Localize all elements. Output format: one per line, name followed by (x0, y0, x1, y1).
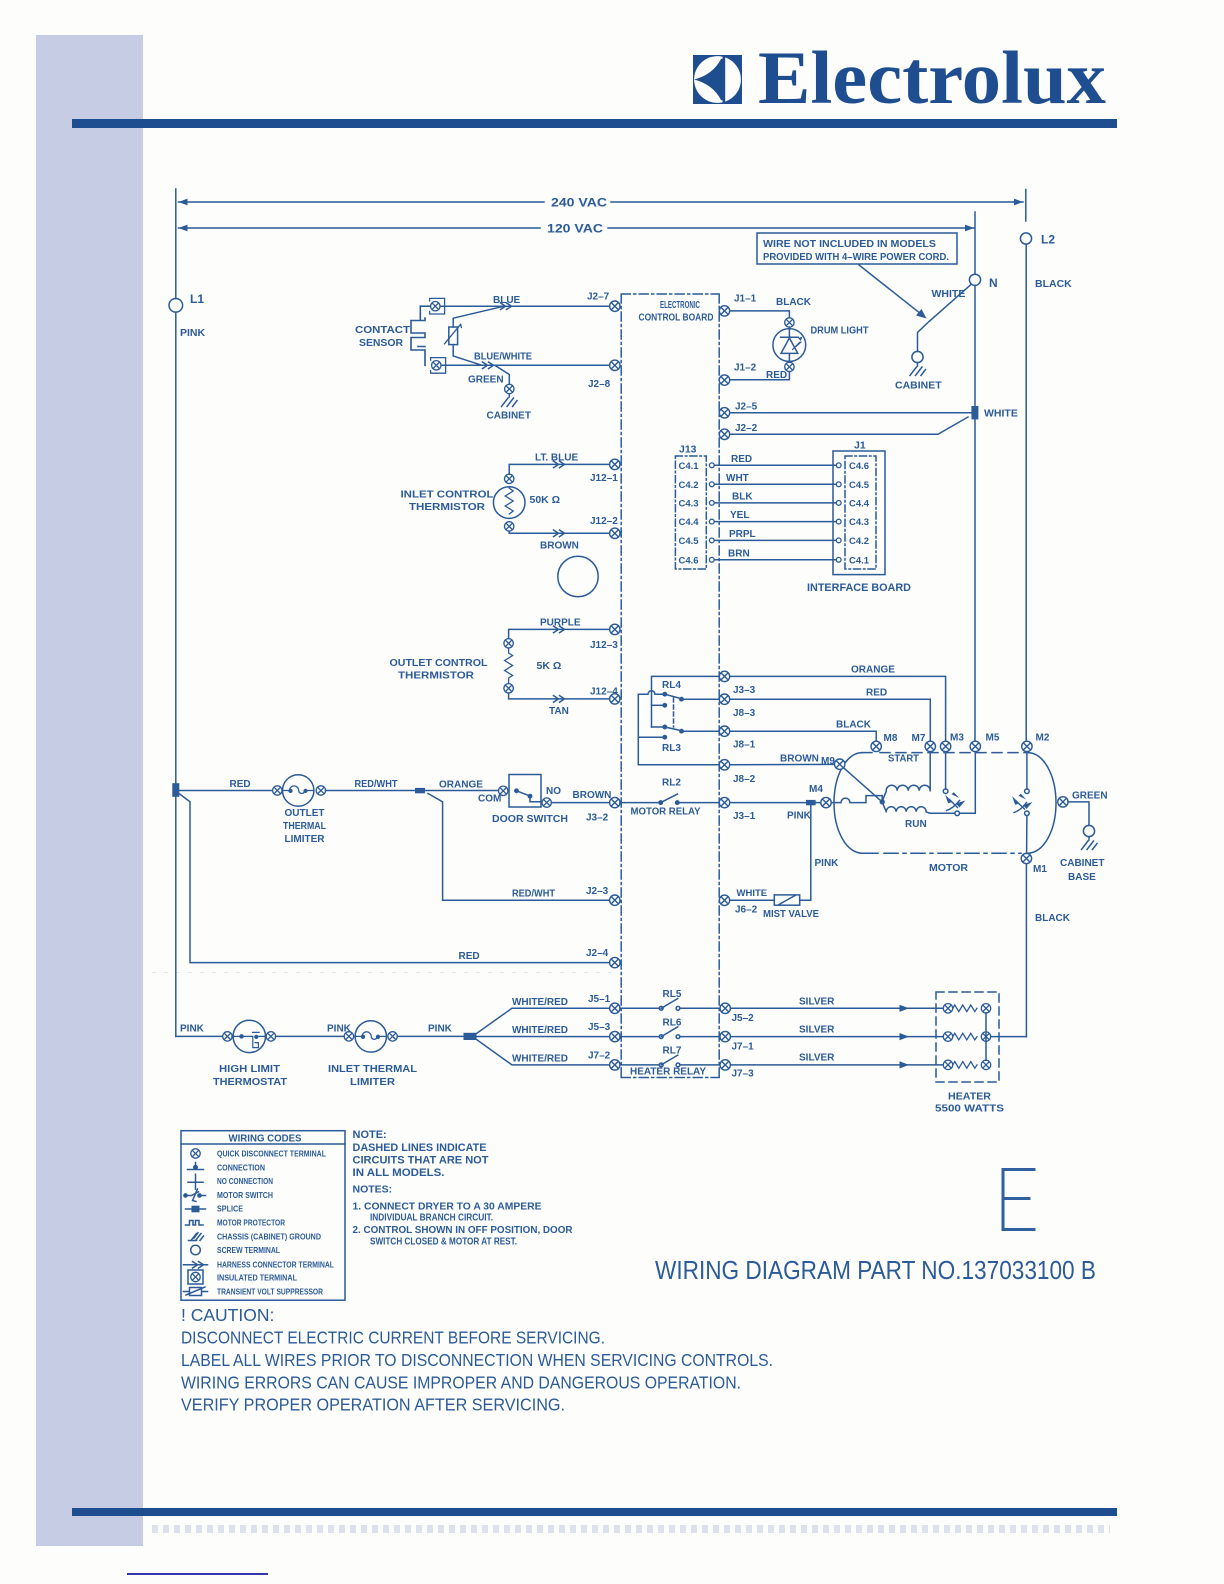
electronic control board U1 (dashed outline) (621, 294, 719, 1078)
connector J1 (833, 440, 885, 575)
relay RL4 (652, 680, 684, 707)
svg-text:C4.3: C4.3 (679, 499, 699, 510)
label INLET CONTROL THERMISTOR (401, 490, 494, 514)
wire WHITE/RED to J7-2 (477, 1040, 610, 1065)
sheet letter E (1003, 1170, 1034, 1230)
svg-text:240 VAC: 240 VAC (551, 198, 607, 210)
svg-text:C4.1: C4.1 (849, 556, 870, 567)
svg-text:CONTROL BOARD: CONTROL BOARD (639, 313, 714, 324)
svg-text:YEL: YEL (730, 510, 749, 521)
wire to J8-2 (638, 764, 719, 766)
svg-text:M8: M8 (884, 733, 898, 744)
svg-text:BRN: BRN (728, 549, 750, 560)
legend motor protector (186, 1218, 286, 1228)
terminal J2-5 (719, 402, 757, 418)
svg-text:C4.5: C4.5 (849, 480, 870, 491)
terminal J5-3 (588, 1022, 620, 1042)
svg-text:THERMISTOR: THERMISTOR (409, 502, 486, 513)
wire heater common (986, 1013, 1026, 1060)
wire N rail tick (974, 212, 976, 274)
terminal J8-2 (719, 760, 755, 785)
terminal J8-1 (719, 726, 755, 751)
node L2 top tick (1025, 190, 1027, 222)
wire WHT J13-J1 (714, 473, 836, 484)
relay RL2 motor relay (620, 778, 719, 818)
svg-text:BLACK: BLACK (776, 297, 812, 308)
wire RED/WHT to J2-3 (428, 794, 609, 901)
svg-text:HIGH LIMIT: HIGH LIMIT (219, 1064, 280, 1075)
wire RL4 common feed (hop over) (638, 691, 663, 765)
svg-text:C4.4: C4.4 (849, 499, 870, 510)
wire BLK J13-J1 (714, 492, 836, 503)
svg-text:J5–1: J5–1 (588, 994, 611, 1005)
svg-text:ORANGE: ORANGE (851, 665, 895, 676)
wire RED to J2-4 (179, 794, 609, 963)
terminal M2 (1022, 733, 1050, 752)
motor M1 outline (834, 753, 1056, 874)
terminal J5-2 (720, 1003, 754, 1024)
centrifugal switch (main M2-M1) (1012, 752, 1032, 816)
svg-text:J2–3: J2–3 (586, 886, 609, 897)
wire PRPL J13-J1 (714, 529, 836, 540)
svg-text:LABEL ALL WIRES PRIOR TO: LABEL ALL WIRES PRIOR TO DISCONNECTION W… (181, 1350, 773, 1370)
wire BRN J13-J1 (714, 549, 836, 560)
svg-text:RED: RED (731, 454, 752, 465)
svg-text:J2–7: J2–7 (587, 292, 610, 303)
notes numbered (353, 1184, 573, 1248)
terminal M4 (809, 784, 831, 808)
wire RED to outlet thermal limiter (179, 779, 272, 791)
label INLET THERMAL LIMITER (328, 1064, 417, 1088)
wire J3-3 feed (652, 676, 720, 727)
svg-text:START: START (888, 754, 919, 765)
svg-text:DRUM LIGHT: DRUM LIGHT (811, 326, 869, 337)
svg-text:BASE: BASE (1068, 872, 1096, 883)
wire LT. BLUE to J12-1 (509, 453, 609, 475)
connector J13 pin circles (709, 463, 714, 562)
svg-text:PROVIDED WITH 4–WIRE POWER: PROVIDED WITH 4–WIRE POWER CORD. (763, 252, 949, 263)
svg-text:LIMITER: LIMITER (285, 834, 326, 845)
svg-text:SILVER: SILVER (799, 1053, 835, 1064)
legend quick disconnect terminal (191, 1149, 326, 1159)
svg-text:BROWN: BROWN (540, 541, 579, 552)
svg-text:GREEN: GREEN (468, 375, 504, 386)
svg-text:J7–1: J7–1 (732, 1042, 755, 1053)
bottom rule bar (72, 1508, 1117, 1517)
wire 120 VAC (179, 224, 975, 236)
svg-text:PINK: PINK (428, 1024, 453, 1035)
terminal M8 (871, 733, 898, 752)
wire M9 to junction (844, 768, 883, 802)
inductor run winding (882, 802, 954, 813)
svg-text:NO CONNECTION: NO CONNECTION (217, 1176, 273, 1186)
wire run switch to M5 (960, 752, 976, 813)
splice PINK (806, 800, 816, 805)
svg-text:SCREW TERMINAL: SCREW TERMINAL (217, 1245, 280, 1255)
wire RL4 to J8-3 (683, 698, 719, 700)
svg-text:PINK: PINK (815, 858, 840, 869)
wire N to cabinet ground (switch blade) (918, 284, 972, 351)
svg-text:50K Ω: 50K Ω (530, 494, 561, 506)
wire WHITE to mist valve (730, 888, 774, 900)
relay RL6 (620, 1017, 719, 1038)
svg-text:BLACK: BLACK (1035, 278, 1072, 290)
svg-text:M1: M1 (1033, 864, 1047, 875)
svg-text:N: N (989, 276, 998, 290)
terminal J3-2 (586, 797, 620, 823)
legend splice (186, 1204, 244, 1214)
svg-text:J2–2: J2–2 (735, 423, 758, 434)
terminal J12-4 (590, 687, 620, 705)
svg-text:M2: M2 (1036, 733, 1050, 744)
svg-text:IN ALL MODELS.: IN ALL MODELS. (353, 1167, 445, 1179)
svg-text:SWITCH CLOSED & MOTOR AT: SWITCH CLOSED & MOTOR AT REST. (370, 1236, 517, 1248)
svg-text:THERMISTOR: THERMISTOR (398, 671, 475, 682)
wire BLUE/WHITE to J2-8 (442, 352, 610, 369)
wire M1 rail to heater (1026, 864, 1070, 1037)
ground chassis CABINET BASE (1060, 837, 1104, 883)
svg-text:BLK: BLK (732, 492, 753, 503)
relay RL3 (638, 725, 683, 754)
svg-text:HARNESS CONNECTOR TERMINAL: HARNESS CONNECTOR TERMINAL (217, 1260, 334, 1270)
mist valve V1 (763, 895, 819, 920)
left lavender band (36, 35, 143, 1546)
svg-text:C4.5: C4.5 (679, 536, 700, 547)
svg-text:J2–5: J2–5 (735, 402, 758, 413)
inlet thermal limiter F1 (344, 1021, 397, 1052)
legend chassis ground (189, 1232, 322, 1242)
terminal J12-1 (590, 459, 620, 484)
svg-text:NO: NO (546, 786, 561, 797)
svg-text:RL7: RL7 (663, 1046, 682, 1057)
wire WHITE/RED to J5-3 (477, 1025, 610, 1037)
svg-text:PINK: PINK (787, 811, 812, 822)
wire RED/WHT (326, 779, 419, 791)
transient volt suppressor RV1 (445, 306, 505, 365)
svg-text:THERMAL: THERMAL (283, 821, 326, 832)
svg-text:CIRCUITS THAT ARE NOT: CIRCUITS THAT ARE NOT (353, 1155, 489, 1167)
svg-text:J2–8: J2–8 (588, 379, 611, 390)
svg-text:L1: L1 (190, 292, 204, 306)
wire PINK mist valve to splice (800, 805, 839, 900)
legend connection (188, 1163, 266, 1173)
legend insulated terminal (188, 1270, 297, 1284)
svg-text:RL4: RL4 (662, 680, 681, 691)
svg-text:RED: RED (866, 688, 887, 699)
motor protector (M4 branch) (832, 796, 883, 803)
wire PURPLE to J12-3 (509, 618, 610, 639)
relay RL7 (620, 1046, 719, 1067)
svg-text:M3: M3 (950, 733, 964, 744)
wire J2-2 WHITE (730, 417, 968, 434)
svg-text:C4.6: C4.6 (849, 461, 869, 472)
wire GREEN to cabinet ground (468, 366, 509, 386)
hyperlink underline bottom left (127, 1573, 268, 1575)
svg-text:LIMITER: LIMITER (350, 1077, 396, 1088)
connector J1 pin labels (849, 461, 870, 567)
svg-text:L2: L2 (1041, 233, 1055, 247)
heater element 3 (943, 1060, 990, 1069)
svg-text:C4.1: C4.1 (679, 461, 700, 472)
label OUTLET CONTROL THERMISTOR (390, 658, 488, 682)
svg-text:C4.2: C4.2 (679, 480, 699, 491)
terminal M9 (821, 756, 845, 769)
linkage RL4-RL3 (673, 698, 675, 727)
terminal J2-3 (586, 886, 620, 905)
svg-text:BROWN: BROWN (573, 790, 612, 801)
terminal J12-2 (590, 516, 620, 539)
insulated terminal (contact sensor bottom) (431, 358, 446, 374)
svg-text:WHITE: WHITE (984, 408, 1018, 420)
svg-text:DISCONNECT ELECTRIC CURRENT: DISCONNECT ELECTRIC CURRENT BEFORE SERVI… (181, 1328, 605, 1348)
svg-text:J3–2: J3–2 (586, 813, 609, 824)
ground chassis CABINET (895, 363, 942, 392)
svg-text:J5–2: J5–2 (732, 1013, 755, 1024)
svg-text:J7–3: J7–3 (732, 1069, 755, 1080)
inlet control thermistor RT1 (493, 474, 560, 531)
svg-text:PINK: PINK (180, 327, 206, 339)
terminal J7-1 (720, 1031, 754, 1052)
svg-text:J13: J13 (679, 444, 697, 456)
note dashed lines (353, 1129, 489, 1179)
connector J1 pin circles (836, 463, 841, 562)
svg-text:THERMOSTAT: THERMOSTAT (213, 1077, 287, 1088)
svg-text:MOTOR RELAY: MOTOR RELAY (631, 807, 701, 818)
terminal J3-1 (719, 797, 755, 822)
svg-text:SENSOR: SENSOR (359, 338, 404, 349)
wire J2-5 WHITE (730, 412, 971, 414)
svg-text:MOTOR SWITCH: MOTOR SWITCH (217, 1190, 273, 1200)
wire M2 switch to M1 (1026, 816, 1028, 854)
wire RL3 to J8-1 (683, 730, 719, 732)
svg-text:WHT: WHT (726, 473, 749, 484)
svg-text:MOTOR PROTECTOR: MOTOR PROTECTOR (217, 1218, 285, 1228)
terminal J12-3 (590, 624, 620, 651)
circle (unlabeled) (558, 556, 598, 596)
svg-text:J8–3: J8–3 (733, 708, 756, 719)
svg-text:5500 WATTS: 5500 WATTS (935, 1103, 1004, 1115)
svg-text:COM: COM (478, 794, 501, 805)
svg-text:RED: RED (459, 951, 480, 962)
svg-text:TAN: TAN (549, 706, 569, 717)
label HIGH LIMIT THERMOSTAT (213, 1064, 287, 1088)
svg-text:BROWN: BROWN (780, 754, 819, 765)
insulated terminal (green ground) (505, 384, 514, 393)
heater HTR1 box (936, 992, 999, 1082)
svg-text:C4.6: C4.6 (679, 556, 699, 567)
connector J13 (675, 444, 706, 570)
svg-text:CABINET: CABINET (487, 411, 531, 422)
svg-text:J12–3: J12–3 (590, 640, 618, 651)
terminal J8-3 (719, 694, 755, 719)
terminal M1 (1021, 853, 1047, 875)
terminal J5-1 (588, 994, 620, 1014)
svg-text:NOTES:: NOTES: (353, 1184, 393, 1196)
contact sensor S1 electrode (355, 306, 436, 365)
svg-text:RUN: RUN (905, 819, 927, 830)
svg-text:C4.2: C4.2 (849, 536, 869, 547)
svg-text:BLUE/WHITE: BLUE/WHITE (474, 352, 532, 363)
centrifugal switch (start) (943, 752, 965, 816)
svg-text:RED/WHT: RED/WHT (355, 779, 398, 790)
terminal J6-2 (719, 895, 757, 915)
wire BLACK J8-1 to M8 (730, 720, 876, 742)
svg-text:WHITE/RED: WHITE/RED (512, 997, 568, 1008)
svg-text:LT. BLUE: LT. BLUE (535, 453, 578, 464)
svg-text:BLACK: BLACK (836, 720, 872, 731)
svg-text:RL6: RL6 (663, 1017, 682, 1028)
svg-text:SILVER: SILVER (799, 1025, 835, 1036)
wire to cabinet base ground (1068, 802, 1089, 826)
svg-text:BLUE: BLUE (493, 295, 521, 306)
svg-text:J1–1: J1–1 (734, 294, 757, 305)
wire RED J13-J1 (714, 454, 836, 465)
svg-text:5K Ω: 5K Ω (537, 660, 562, 672)
svg-text:PINK: PINK (180, 1024, 205, 1035)
svg-text:NOTE:: NOTE: (353, 1129, 387, 1141)
svg-text:M4: M4 (809, 784, 823, 795)
note box WIRE NOT INCLUDED (757, 233, 957, 264)
Electrolux logo (0, 0, 1224, 160)
screw terminal cabinet base (1083, 825, 1094, 836)
svg-text:WIRING CODES: WIRING CODES (229, 1133, 302, 1145)
svg-text:J12–1: J12–1 (590, 473, 618, 484)
svg-text:J5–3: J5–3 (588, 1022, 611, 1033)
svg-text:BLACK: BLACK (1035, 913, 1071, 924)
svg-text:INLET THERMAL: INLET THERMAL (328, 1064, 417, 1075)
svg-text:RED: RED (766, 370, 787, 381)
splice PINK three-way (464, 1033, 477, 1040)
legend harness connector terminal (184, 1260, 335, 1270)
wire RED J8-3 to M7 (730, 688, 930, 742)
svg-text:RL3: RL3 (662, 743, 681, 754)
svg-text:PRPL: PRPL (729, 529, 756, 540)
svg-text:OUTLET: OUTLET (285, 808, 325, 819)
wire TAN to J12-4 (509, 693, 610, 717)
svg-text:J8–1: J8–1 (733, 740, 756, 751)
wire rail to high limit thermostat (176, 1035, 223, 1037)
terminal M5 (970, 733, 1000, 752)
terminal J1-1 (719, 294, 756, 317)
legend no connection (188, 1174, 273, 1189)
terminal J2-4 (586, 948, 620, 968)
ground chassis CABINET (sensor) (487, 394, 531, 422)
wire SILVER 3 (731, 1053, 944, 1069)
label OUTLET THERMAL LIMITER (283, 808, 326, 845)
relay RL5 (620, 989, 719, 1010)
wire BROWN J8-2 to M9 (730, 754, 835, 765)
svg-text:CHASSIS (CABINET) GROUND: CHASSIS (CABINET) GROUND (217, 1232, 321, 1242)
wire N rail to M5 (974, 286, 976, 741)
svg-text:M9: M9 (821, 756, 835, 767)
wire ORANGE to door switch (425, 780, 499, 791)
svg-text:INTERFACE BOARD: INTERFACE BOARD (807, 582, 911, 594)
svg-text:VERIFY PROPER OPERATION AFT: VERIFY PROPER OPERATION AFTER SERVICING. (181, 1395, 565, 1415)
svg-text:RED: RED (230, 779, 251, 790)
svg-text:C4.4: C4.4 (679, 517, 700, 528)
svg-text:WHITE: WHITE (737, 888, 768, 899)
splice L1 rail (172, 783, 179, 797)
wire BLUE to J2-7 (441, 295, 610, 310)
top rule bar (72, 119, 1117, 128)
wire PINK J3-1 to M4 (730, 803, 821, 822)
svg-text:DASHED LINES INDICATE: DASHED LINES INDICATE (353, 1142, 487, 1154)
svg-text:J6–2: J6–2 (735, 905, 758, 916)
svg-text:WIRING ERRORS CAN CAUSE IM: WIRING ERRORS CAN CAUSE IMPROPER AND DAN… (181, 1373, 741, 1393)
svg-text:120 VAC: 120 VAC (547, 224, 603, 236)
terminal J7-3 (720, 1060, 754, 1080)
svg-text:J7–2: J7–2 (588, 1051, 611, 1062)
svg-text:M5: M5 (986, 733, 1000, 744)
connector J13 pin labels (679, 461, 700, 567)
svg-text:CONTACT: CONTACT (355, 325, 410, 336)
wire SILVER 2 (731, 1025, 944, 1041)
heater element 1 (943, 1004, 990, 1013)
svg-text:RL5: RL5 (663, 989, 682, 1000)
node motor junction (880, 800, 884, 804)
node N (969, 274, 997, 290)
legend motor switch (184, 1189, 273, 1202)
svg-text:OUTLET CONTROL: OUTLET CONTROL (390, 658, 488, 669)
terminal J2-8 (588, 360, 620, 390)
svg-text:J1–2: J1–2 (734, 363, 757, 374)
label ELECTRONIC CONTROL BOARD (639, 300, 714, 324)
svg-text:2. CONTROL SHOWN IN OFF PO: 2. CONTROL SHOWN IN OFF POSITION, DOOR (353, 1224, 573, 1236)
wire ORANGE J3-3 to M3 (730, 665, 946, 742)
outlet control thermistor RT2 (504, 639, 561, 693)
wire L1 rail top (175, 189, 177, 298)
wire SILVER 1 (731, 997, 944, 1012)
high limit thermostat S3 (223, 1020, 276, 1052)
svg-text:WHITE/RED: WHITE/RED (512, 1053, 568, 1064)
terminal GREEN (motor frame) (1058, 791, 1108, 808)
screw terminal cabinet (912, 351, 923, 362)
terminal J7-2 (588, 1051, 620, 1071)
svg-text:MOTOR: MOTOR (929, 862, 968, 874)
node L1 (169, 292, 204, 312)
caution text (181, 1305, 773, 1415)
note box pointer arrow (859, 265, 927, 319)
svg-text:GREEN: GREEN (1072, 791, 1108, 802)
terminal J2-7 (587, 292, 620, 312)
svg-text:CABINET: CABINET (895, 380, 942, 392)
svg-text:J12–2: J12–2 (590, 516, 618, 527)
wire L2 rail to M2 (1025, 244, 1027, 741)
svg-text:TRANSIENT VOLT SUPPRESSOR: TRANSIENT VOLT SUPPRESSOR (217, 1287, 323, 1297)
svg-text:INLET CONTROL: INLET CONTROL (401, 490, 494, 501)
inductor start winding (882, 752, 930, 802)
svg-text:QUICK DISCONNECT TERMINAL: QUICK DISCONNECT TERMINAL (217, 1149, 326, 1159)
wire BROWN to J3-2 (551, 790, 611, 803)
svg-text:WIRE NOT INCLUDED IN MODEL: WIRE NOT INCLUDED IN MODELS (763, 239, 936, 250)
scan artifact dashed line (153, 972, 620, 974)
legend transient volt suppressor (184, 1287, 324, 1297)
svg-text:J3–1: J3–1 (733, 811, 756, 822)
svg-text:ELECTRONIC: ELECTRONIC (660, 300, 700, 311)
wire PINK to splice (397, 1024, 464, 1037)
svg-text:INDIVIDUAL BRANCH CIRCUIT.: INDIVIDUAL BRANCH CIRCUIT. (370, 1212, 493, 1224)
svg-text:! CAUTION:: ! CAUTION: (181, 1305, 274, 1325)
insulated terminal (contact sensor top) (430, 298, 445, 314)
wire 240 VAC (179, 198, 1024, 210)
terminal J1-2 (719, 363, 756, 386)
wire BROWN to J12-2 (509, 530, 609, 552)
svg-text:RL2: RL2 (662, 778, 681, 789)
svg-text:ORANGE: ORANGE (439, 780, 483, 791)
door switch S2 (478, 775, 568, 826)
wire J1-2 RED from drum light (730, 370, 789, 381)
svg-text:RED/WHT: RED/WHT (512, 889, 555, 900)
